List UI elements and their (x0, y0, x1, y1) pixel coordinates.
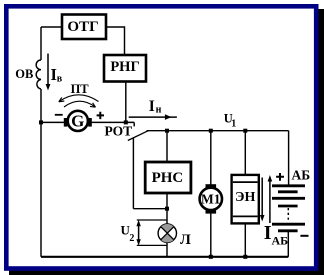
wire: generator armature horizontal (41, 121, 64, 123)
svg-text:I: I (149, 98, 155, 115)
svg-text:н: н (156, 105, 162, 116)
wire: left vertical top (to OV coil) (40, 27, 42, 60)
wire: top bus U1 (147, 130, 289, 132)
wire: OTG left lead (41, 26, 62, 28)
svg-text:М1: М1 (201, 192, 221, 207)
lamp L (158, 224, 176, 242)
generator G (64, 111, 92, 131)
wire: lamp bottom lead (166, 242, 168, 257)
svg-text:РОТ: РОТ (105, 124, 133, 139)
block RNS (145, 162, 191, 193)
field winding OV coil (36, 60, 41, 89)
wire: battery top lead (288, 131, 290, 185)
battery current arrows IAB (260, 175, 272, 223)
current arrow Iv (46, 54, 51, 91)
block RNG (104, 55, 146, 82)
svg-text:ПТ: ПТ (71, 82, 90, 96)
wire: OTG right lead to RNG (106, 27, 125, 55)
battery AB plates (272, 186, 305, 231)
heater EN (232, 175, 259, 224)
svg-text:АБ: АБ (292, 168, 311, 183)
current arrow In (129, 114, 177, 120)
prime mover PT rotation arcs (59, 95, 99, 107)
wire: hinge leg to lamp node (133, 208, 167, 210)
wire: battery bottom lead (287, 231, 289, 257)
switch ROT blade (128, 131, 149, 141)
wire: lamp top lead (166, 209, 168, 225)
voltage arrow U2 (136, 220, 166, 246)
switch ROT fixed contact tick (133, 122, 135, 126)
wire: M1 bottom lead (210, 213, 212, 257)
generator plus sign (97, 112, 104, 119)
wire: M1 top lead (210, 131, 212, 185)
svg-text:РНГ: РНГ (110, 59, 139, 75)
wire: RNS top lead (166, 131, 168, 162)
wire: generator right lead to switch (91, 121, 134, 123)
wire: left vertical bottom (40, 89, 42, 257)
wire: RNS bottom lead (166, 193, 168, 209)
motor M1 (200, 184, 222, 213)
svg-text:АБ: АБ (272, 234, 289, 248)
battery plus sign (276, 173, 284, 181)
battery minus sign (300, 235, 308, 237)
svg-text:G: G (71, 112, 84, 131)
svg-text:ОВ: ОВ (15, 67, 33, 81)
svg-text:РНС: РНС (152, 170, 184, 186)
wire: RNG bottom lead (125, 82, 127, 123)
generator minus sign (55, 114, 63, 116)
block OTG (62, 15, 106, 40)
wire: bottom bus (41, 256, 288, 258)
svg-text:ЭН: ЭН (235, 190, 255, 205)
wire: EN top lead (244, 131, 246, 175)
wire: EN bottom lead (244, 223, 246, 256)
svg-text:в: в (57, 74, 63, 85)
wire: switch hinge down leg (132, 138, 134, 209)
svg-text:ОТГ: ОТГ (67, 19, 98, 35)
svg-text:2: 2 (129, 233, 134, 244)
svg-text:1: 1 (231, 119, 236, 130)
svg-text:Л: Л (180, 232, 191, 248)
